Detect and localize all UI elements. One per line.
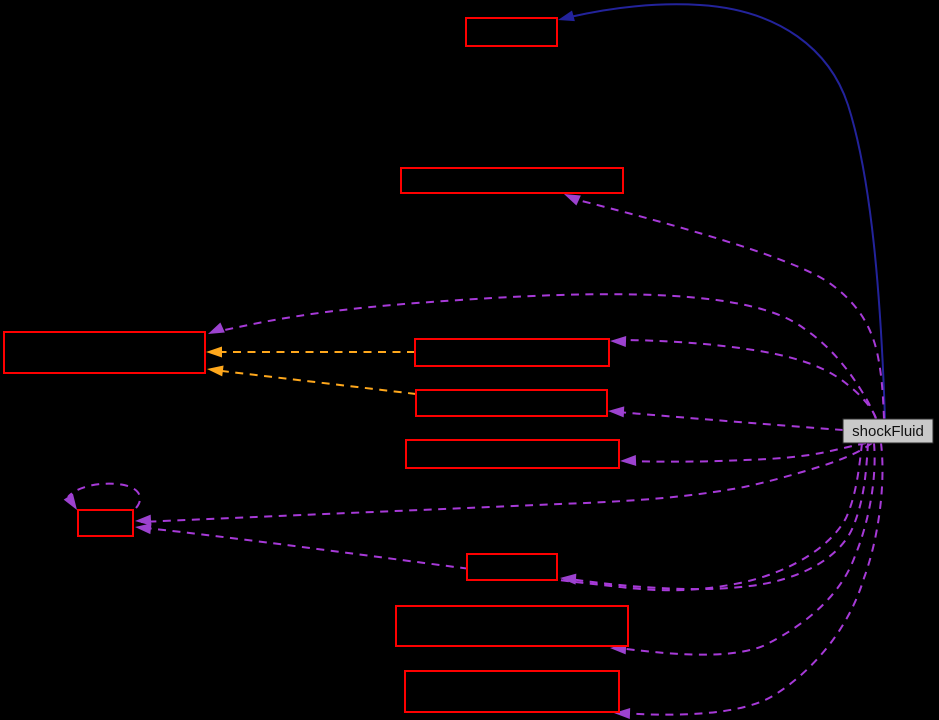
edge shockFluid->box1 (blue solid inheritance) — [570, 4, 885, 419]
node box5 mid — [416, 390, 607, 416]
arrowhead at box8 — [560, 573, 577, 585]
node box8 — [467, 554, 557, 580]
arrowhead at box2 — [562, 189, 581, 206]
edge shockFluid->box3 left (purple dashed) — [216, 294, 876, 419]
arrowhead orange upper — [206, 347, 222, 358]
node box6 mid — [406, 440, 619, 468]
arrowhead blue at box1 — [557, 11, 575, 26]
svg-text:shockFluid: shockFluid — [852, 423, 924, 440]
arrowhead orange lower — [206, 364, 223, 377]
arrowhead at box9 — [610, 643, 627, 655]
node shockFluid — [843, 419, 933, 443]
edge shockFluid->box7 upper (purple dashed) — [141, 443, 872, 522]
edge shockFluid->box6 mid (purple dashed) — [626, 443, 866, 462]
arrowhead at box6 — [620, 455, 636, 467]
node box2 — [401, 168, 623, 193]
node box1 top — [466, 18, 557, 46]
edge shockFluid->box9 (purple dashed) — [618, 443, 875, 655]
edge box4->box3 (orange dashed template) — [222, 351, 415, 353]
edge shockFluid->box8 (purple dashed) — [570, 443, 868, 589]
edge shockFluid->box2 (purple dashed) — [574, 199, 884, 419]
edge shockFluid->box5 mid (purple dashed) — [618, 412, 843, 430]
node box9 — [396, 606, 628, 646]
edge shockFluid->box10 (purple dashed) — [620, 443, 882, 715]
arrowhead at box7 lower — [134, 522, 151, 535]
node box7 small — [78, 510, 133, 536]
edge shockFluid->box4 mid (purple dashed) — [616, 340, 876, 418]
arrowhead at box4 — [610, 336, 626, 348]
arrowhead at box10 — [614, 708, 630, 720]
node box4 mid — [415, 339, 609, 366]
arrowhead self-loop — [64, 494, 82, 513]
arrowhead at box3 — [206, 322, 225, 339]
self-loop edge on box7 (purple dashed) — [68, 484, 140, 508]
edge box5->box3 (orange dashed template) — [222, 371, 416, 394]
arrowhead at box7 upper — [135, 515, 152, 527]
edge shockFluid->box7 lower behind box8 (purple dashed) — [146, 443, 862, 590]
node box3 left — [4, 332, 205, 373]
node box10 — [405, 671, 619, 712]
arrowhead at box5 — [608, 406, 625, 418]
